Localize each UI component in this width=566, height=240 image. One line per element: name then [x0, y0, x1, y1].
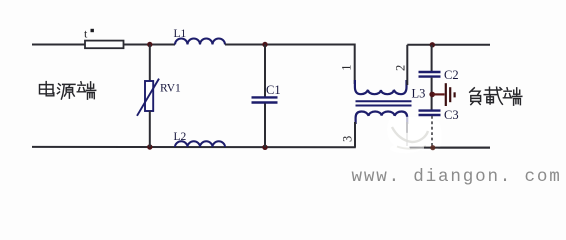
capacitor C2 plate lower [419, 75, 441, 77]
transformer core line lower [356, 105, 412, 107]
transformer L3 secondary winding (bottom, loops up) [356, 112, 408, 125]
wire secondary right lead fading [406, 132, 408, 146]
inductor L1 [175, 39, 225, 45]
wire top rail left segment [32, 44, 85, 46]
wire fuse to L1 [124, 44, 176, 46]
wire bottom rail solid right part [424, 147, 490, 149]
fuse F1 body (thermal fuse) [85, 41, 124, 49]
wire RV1 lower lead [149, 111, 151, 147]
svg-text:L2: L2 [174, 131, 187, 143]
wire C3 lower lead (faint under watermark) [431, 116, 433, 147]
watermark blob (faint logo over wires) [387, 117, 442, 154]
wire C1 lower lead [264, 104, 266, 148]
载 [484, 87, 502, 104]
wire C1 upper lead [264, 45, 266, 97]
wire C2 upper lead [431, 45, 433, 71]
capacitor C1 plate lower [252, 101, 278, 103]
wire pin 3 vertical [354, 122, 356, 147]
wire secondary right lead down [406, 122, 408, 133]
wire bottom rail left [32, 146, 356, 148]
svg-text:www. diangon. com: www. diangon. com [352, 167, 562, 187]
wire earth lead [433, 93, 445, 95]
源 [57, 84, 75, 99]
wire bottom rail faint resume segment [410, 147, 426, 149]
capacitor C2 plate upper [419, 71, 441, 73]
capacitor C3 plate lower [419, 114, 441, 116]
端 [77, 82, 95, 99]
svg-text:L1: L1 [174, 28, 187, 40]
wire pin 2 vertical [406, 45, 408, 85]
transformer core line upper [356, 100, 412, 102]
svg-text:C1: C1 [266, 83, 281, 97]
varistor RV1 diagonal stroke [137, 79, 159, 116]
端 [503, 88, 521, 105]
transformer L3 primary winding (top, loops down) [355, 80, 407, 94]
svg-text:C3: C3 [444, 108, 459, 122]
svg-text:RV1: RV1 [160, 83, 181, 95]
node earth midpoint junction [429, 92, 435, 98]
label 电源端 (power terminal) [40, 82, 96, 100]
node C1 bottom junction [262, 145, 267, 150]
wire top rail right [407, 44, 490, 46]
node bottom junction C3 [430, 145, 435, 150]
node C2 top junction [430, 42, 435, 47]
wire C2 to midpoint [431, 78, 433, 110]
svg-text:3: 3 [341, 136, 355, 142]
svg-text:C2: C2 [444, 68, 459, 82]
svg-text:2: 2 [393, 65, 407, 71]
varistor RV1 body [145, 81, 153, 111]
电 [40, 82, 54, 96]
capacitor C1 plate upper [252, 96, 278, 98]
ground symbol (rotated earth) [446, 83, 455, 106]
node C1 top junction [262, 42, 267, 47]
capacitor C3 plate upper [419, 109, 441, 111]
svg-text:L3: L3 [412, 86, 426, 100]
wire L1 to pin1 drop [225, 44, 356, 46]
svg-text:1: 1 [340, 65, 354, 71]
node RV1 top junction [147, 42, 152, 47]
node RV1 bottom junction [147, 144, 152, 149]
wire RV1 upper lead [149, 45, 151, 82]
label 负载端 (load terminal) [470, 87, 522, 105]
label t° [84, 27, 94, 41]
wire bottom rail right [409, 147, 490, 149]
wire pin 1 vertical [354, 44, 356, 85]
负 [470, 88, 481, 105]
inductor L2 [175, 141, 225, 147]
